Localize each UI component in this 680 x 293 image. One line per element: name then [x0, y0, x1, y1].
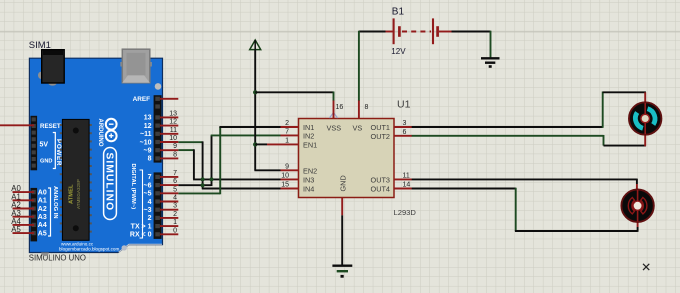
svg-text:TX > 1: TX > 1	[131, 223, 152, 230]
svg-text:8: 8	[173, 151, 177, 158]
pin number labels 7..0 (black, outside)	[173, 170, 177, 234]
wire: pin6 net vertical black x=211.5 up to IN2	[211, 135, 213, 186]
wire: Arduino pin10 to U1 IN4 (horizontal green from pin stub)	[178, 141, 202, 143]
wire: vertical green x=602.7 up	[602, 92, 604, 128]
Arduino ATmega328 IC	[60, 119, 92, 240]
svg-text:A5: A5	[11, 225, 21, 234]
svg-text:A4: A4	[38, 222, 47, 229]
svg-text:IN4: IN4	[303, 185, 314, 194]
svg-text:A0: A0	[38, 189, 47, 196]
motor M1 (top, running: cyan rotor)	[629, 102, 661, 134]
svg-text:~11: ~11	[140, 131, 152, 138]
board silk: RESET,5V,GND + POWER bracket	[40, 123, 62, 169]
ground symbol (below U1)	[332, 266, 352, 277]
svg-text:~5: ~5	[144, 191, 152, 198]
wire: horizontal black y=145.6 to motor M1 bottom pin	[604, 145, 646, 147]
svg-text:3: 3	[173, 203, 177, 210]
pin stub: RESET (red, to left edge)	[0, 124, 34, 126]
wire: VSS branch horizontal black y=92.3	[255, 91, 333, 93]
wire: IN3 feed horizontal black y=179.4	[193, 178, 280, 180]
wire: EN1 feed horizontal black y=144.4	[255, 143, 267, 145]
wire: IN4 feed horizontal black y=188.5	[202, 188, 281, 190]
svg-text:5: 5	[173, 186, 177, 193]
svg-text:RESET: RESET	[40, 123, 61, 130]
svg-text:VS: VS	[353, 124, 363, 133]
wire: horizontal black y=231 to motor M2 bottom	[515, 230, 638, 232]
svg-text:2: 2	[148, 215, 152, 222]
svg-text:9: 9	[173, 143, 177, 150]
U1 top pin stubs (red) VSS x=333.5, VS x=358.9	[334, 101, 359, 119]
board silk: SIMULINO badge	[103, 148, 116, 220]
svg-text:SIMULINO: SIMULINO	[103, 153, 114, 212]
svg-text:11: 11	[403, 172, 410, 179]
wire: pin10 net vertical black x=202.6	[202, 141, 204, 188]
svg-text:13: 13	[144, 115, 152, 122]
svg-text:A3: A3	[38, 214, 47, 221]
svg-text:12: 12	[169, 119, 177, 126]
svg-text:7: 7	[148, 174, 152, 181]
pin: M2 top lead (black then red) x=636.9	[636, 179, 638, 190]
svg-text:16: 16	[336, 104, 344, 111]
label U1	[397, 99, 411, 111]
board silk: ARDUINO text + logo	[97, 119, 116, 147]
wire: pin5 net vertical green x=220.2 up to IN1	[219, 127, 221, 194]
junction: power line at VSS branch	[253, 90, 257, 94]
wire: VS vertical green x=358.9 from battery down to U1 VS	[358, 31, 360, 101]
board silk: A0..A5 (white) + ANALOG IN bracket	[38, 186, 58, 237]
ground symbol (right of battery)	[481, 58, 500, 66]
svg-text:5V: 5V	[40, 142, 49, 149]
op chip: motor driver U1 L293D body	[299, 119, 395, 198]
mouse cursor x mark	[643, 264, 649, 270]
svg-text:8: 8	[365, 104, 369, 111]
svg-text:OUT2: OUT2	[371, 132, 390, 141]
svg-text:A5: A5	[38, 230, 47, 237]
svg-text:GND: GND	[40, 159, 52, 165]
svg-text:ATMEGA328P: ATMEGA328P	[76, 179, 81, 209]
svg-text:DIGITAL (PWM~): DIGITAL (PWM~)	[130, 164, 136, 210]
U1 right pin stubs (red) OUT1..OUT4	[394, 127, 412, 189]
svg-text:EN1: EN1	[303, 141, 317, 150]
svg-text:IN2: IN2	[303, 132, 314, 141]
Arduino mounting holes	[41, 83, 162, 256]
svg-text:2: 2	[173, 211, 177, 218]
svg-text:3: 3	[403, 120, 407, 127]
svg-text:~9: ~9	[144, 148, 152, 155]
svg-text:9: 9	[285, 163, 289, 170]
svg-text:B1: B1	[392, 6, 405, 17]
svg-text:~10: ~10	[140, 139, 152, 146]
wire: OUT3 to motor M2 top: horizontal black y=179.4	[412, 178, 637, 180]
svg-text:11: 11	[170, 127, 177, 134]
board silk: AREF and digital pin numbers (white)	[130, 96, 152, 238]
svg-text:12V: 12V	[391, 47, 406, 56]
svg-text:8: 8	[148, 156, 152, 163]
wire: IN1 feed horizontal black y=127	[219, 126, 280, 128]
svg-text:ARDUINO: ARDUINO	[97, 119, 103, 147]
board silk: DIGITAL (PWM~) + bracket	[130, 164, 143, 239]
Arduino power jack	[38, 50, 64, 86]
svg-text:13: 13	[169, 110, 177, 117]
svg-text:IN3: IN3	[303, 175, 314, 184]
wire: battery left lead horizontal y=31.5 (green then red pin)	[359, 31, 393, 33]
junction dots on IN3/pin6 lines	[201, 177, 214, 187]
svg-text:6: 6	[403, 129, 407, 136]
battery B1	[394, 18, 438, 44]
left analog pin header A0..A5	[31, 188, 38, 242]
svg-text:0: 0	[173, 227, 177, 234]
wire: Arduino pin6 horizontal black y=185.2	[178, 184, 211, 186]
svg-text:4: 4	[148, 199, 152, 206]
svg-text:10: 10	[169, 135, 177, 142]
svg-text:OUT4: OUT4	[371, 185, 390, 194]
svg-text:SIMULINO UNO: SIMULINO UNO	[29, 253, 86, 262]
right digital pin header (top block AREF,13..8)	[154, 95, 162, 162]
pin number labels 13..8 (black, outside)	[169, 110, 177, 158]
svg-text:ATMEL: ATMEL	[69, 184, 75, 204]
wire: horizontal black y=92.3 to motor M1 top pin	[603, 91, 646, 93]
svg-text:AREF: AREF	[133, 96, 150, 103]
wire: vertical green x=515.7 down	[515, 188, 517, 231]
svg-text:14: 14	[403, 182, 411, 189]
wire: pin9 net vertical black x=193.9	[193, 149, 195, 179]
right digital pin header (bottom block 7..0)	[154, 172, 162, 239]
label SIM1	[29, 40, 51, 51]
junction: power line at EN1	[253, 142, 257, 146]
pin: M2 bottom lead (red then black) x=637.6	[637, 222, 639, 232]
motor M2 (bottom, stopped: outlined rotor)	[621, 190, 653, 222]
svg-text:ANALOG IN: ANALOG IN	[52, 186, 58, 219]
svg-text:2: 2	[285, 120, 289, 127]
label B1	[392, 6, 405, 17]
pin stubs: AREF,13..8 (red, right)	[160, 99, 178, 159]
svg-text:~3: ~3	[144, 207, 152, 214]
pin: M1 top lead red	[644, 92, 646, 103]
svg-text:1: 1	[173, 219, 177, 226]
svg-text:6: 6	[173, 178, 177, 185]
wire: EN2 feed horizontal black y=170.3	[254, 169, 280, 171]
value label SIMULINO UNO	[29, 253, 86, 262]
wire: OUT4 horizontal black y=188.5	[412, 188, 516, 190]
wire: Arduino pin9 to U1 IN3 (horizontal green from pin stub)	[178, 149, 194, 151]
svg-text:L293D: L293D	[394, 208, 417, 217]
Arduino Uno module SIM1	[29, 58, 162, 252]
svg-text:15: 15	[281, 182, 289, 189]
svg-text:A2: A2	[38, 206, 47, 213]
svg-text:10: 10	[281, 172, 289, 179]
wire: IN2 feed horizontal green y=135.4	[211, 134, 281, 136]
pin: U1 GND lead vertical (red then black) x=342.2	[341, 198, 343, 265]
svg-text:12: 12	[144, 123, 152, 130]
svg-text:7: 7	[173, 170, 177, 177]
U1 pin number labels	[281, 104, 410, 189]
value label L293D	[394, 208, 417, 217]
svg-text:blogembarcado.blogspot.com: blogembarcado.blogspot.com	[59, 247, 119, 252]
svg-text:1: 1	[285, 137, 289, 144]
U1 left pin stubs (red) IN1,IN2,EN1,EN2,IN3,IN4	[267, 127, 299, 189]
pin marker: VSS input triangle	[330, 113, 338, 119]
svg-text:~6: ~6	[144, 182, 152, 189]
svg-text:7: 7	[285, 128, 289, 135]
wire: OUT1 to motor M1 top: horizontal black y=127	[412, 126, 603, 128]
pin stubs: 7..0 (red, right)	[160, 177, 178, 234]
wire: OUT2 to motor M1 bottom: horizontal green y=135.8	[412, 135, 604, 137]
power terminal arrow (+V)	[250, 40, 261, 50]
svg-text:A1: A1	[38, 198, 47, 205]
pin: M1 bottom lead red	[644, 134, 646, 146]
svg-text:EN2: EN2	[303, 166, 317, 175]
wire: power vertical black x=255.2 down to EN2	[254, 50, 256, 171]
wire: Arduino pin5 horizontal green y=193.4	[178, 192, 220, 194]
svg-text:OUT1: OUT1	[371, 123, 390, 132]
svg-text:VSS: VSS	[327, 124, 342, 133]
wire: vertical green x=490.5 down to ground	[490, 31, 492, 58]
value label 12V	[391, 47, 406, 56]
Arduino USB connector	[120, 49, 151, 83]
node labels A0..A5 with stubs (left)	[11, 184, 34, 234]
svg-text:U1: U1	[397, 99, 411, 111]
svg-text:GND: GND	[338, 175, 347, 191]
board silk: url texts	[59, 242, 119, 252]
svg-text:OUT3: OUT3	[371, 175, 390, 184]
wire: vertical green x=603.5 down	[603, 135, 605, 146]
wire: battery right lead (red pin then black wire) y=31.5	[439, 31, 491, 33]
wire: VSS branch vertical green x=333.5	[333, 92, 335, 102]
svg-text:4: 4	[173, 195, 177, 202]
left power pin header	[31, 116, 38, 171]
U1 pin name labels	[303, 123, 390, 194]
